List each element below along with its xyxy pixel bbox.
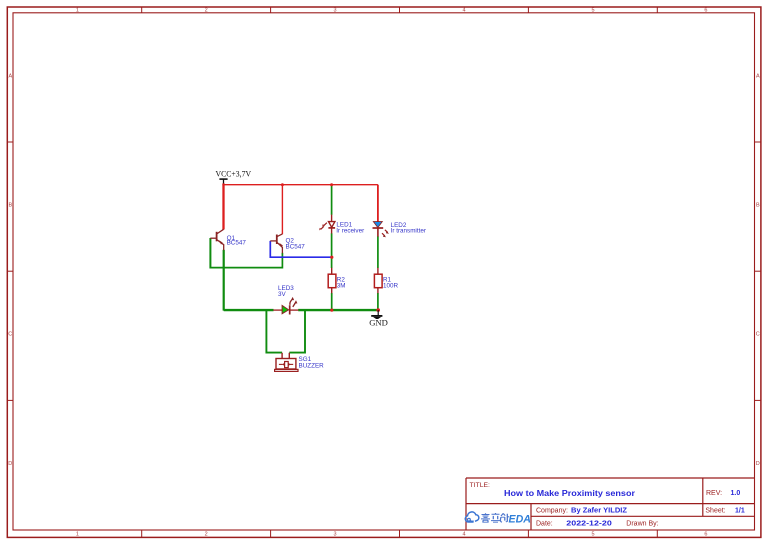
svg-text:5: 5 [591,8,594,14]
svg-text:3: 3 [333,532,336,538]
svg-text:REV:: REV: [706,490,722,497]
svg-text:A: A [756,73,760,79]
svg-text:C: C [756,332,760,338]
svg-text:D: D [756,461,760,467]
svg-text:100R: 100R [383,283,399,290]
svg-text:Drawn By:: Drawn By: [626,521,658,528]
svg-text:BC547: BC547 [286,244,306,251]
svg-text:Date:: Date: [536,521,553,528]
svg-text:2: 2 [205,8,208,14]
svg-text:VCC+3,7V: VCC+3,7V [216,168,252,178]
svg-text:Ir transmitter: Ir transmitter [391,227,426,234]
svg-text:2022-12-20: 2022-12-20 [566,521,612,528]
svg-text:6: 6 [704,532,707,538]
svg-text:C: C [8,332,12,338]
svg-text:3V: 3V [278,291,287,298]
svg-text:1.0: 1.0 [731,490,741,497]
svg-text:GND: GND [369,317,388,327]
svg-text:6: 6 [704,8,707,14]
svg-text:D: D [8,461,12,467]
svg-text:BC547: BC547 [227,240,247,247]
svg-text:4: 4 [462,532,465,538]
svg-text:3: 3 [333,8,336,14]
svg-text:How to Make Proximity sensor: How to Make Proximity sensor [504,488,636,498]
svg-text:4: 4 [462,8,465,14]
svg-text:1/1: 1/1 [735,508,745,515]
svg-text:BUZZER: BUZZER [299,363,325,370]
svg-text:3M: 3M [337,283,346,290]
svg-text:5: 5 [591,532,594,538]
svg-text:1: 1 [76,8,79,14]
svg-text:B: B [756,203,760,209]
svg-text:1: 1 [76,532,79,538]
svg-text:A: A [8,73,12,79]
svg-text:TITLE:: TITLE: [470,482,491,489]
svg-text:Sheet:: Sheet: [705,508,725,515]
svg-text:Ir receiver: Ir receiver [336,228,364,235]
svg-text:2: 2 [205,532,208,538]
svg-text:EDA: EDA [509,513,531,525]
svg-text:By Zafer YILDIZ: By Zafer YILDIZ [571,507,628,514]
svg-text:B: B [8,203,12,209]
svg-text:Company:: Company: [536,507,568,514]
